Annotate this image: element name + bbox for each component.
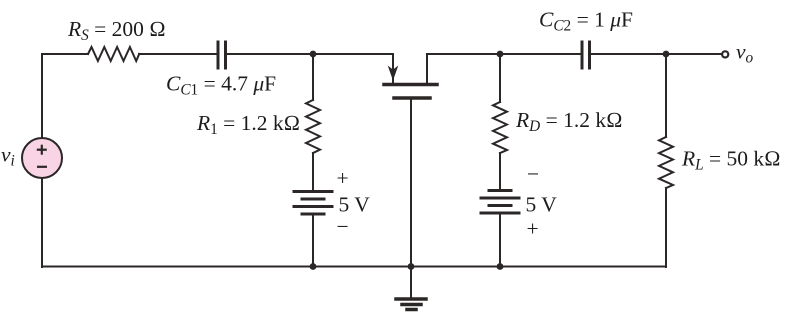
- wire R1 top: [312, 54, 314, 100]
- node C dot: [663, 51, 670, 58]
- transistor Q1 channel bar: [384, 83, 437, 87]
- svg-text:+: +: [527, 217, 539, 241]
- wire RS to CC1: [139, 53, 217, 55]
- node F dot (bottom B2): [497, 263, 504, 270]
- svg-text:−: −: [337, 215, 349, 239]
- wire CC1 to node A: [227, 53, 313, 55]
- source vi plus sign: [37, 145, 47, 167]
- resistor R1: [306, 100, 320, 153]
- wire RL top: [665, 54, 667, 137]
- source vi circle: [22, 138, 62, 178]
- capacitor CC1: [218, 42, 226, 68]
- transistor Q1 source arrow: [388, 66, 399, 81]
- svg-text:−: −: [527, 162, 539, 186]
- wire battery B2 to bottom bus: [499, 214, 501, 267]
- terminal vo open circle: [722, 51, 728, 57]
- transistor Q1 gate wire: [410, 99, 412, 267]
- ground bars: [396, 299, 426, 310]
- svg-text:+: +: [337, 166, 349, 190]
- node E dot (bottom gate/ground): [408, 263, 415, 270]
- battery B2: [481, 191, 519, 214]
- svg-text:CC2 = 1 μF: CC2 = 1 μF: [539, 8, 633, 35]
- node D dot (bottom R1): [310, 263, 317, 270]
- resistor RD: [493, 102, 507, 153]
- wire R1 to battery B1: [312, 153, 314, 191]
- wire left branch below source: [41, 178, 43, 267]
- resistor RL: [659, 137, 673, 188]
- source vi minus sign: [37, 166, 47, 168]
- transistor Q1 gate bar: [394, 96, 430, 100]
- ground stem: [410, 267, 412, 299]
- wire top-left corner to RS: [42, 54, 88, 138]
- wire RD to battery B2: [499, 153, 501, 190]
- svg-text:5 V: 5 V: [339, 193, 371, 217]
- wire CC2 to node C and vo terminal: [591, 53, 721, 55]
- wire RD top: [499, 54, 501, 102]
- node A dot: [310, 51, 317, 58]
- wire battery B1 to bottom bus: [312, 215, 314, 267]
- resistor RS: [88, 47, 139, 61]
- capacitor CC2: [582, 42, 590, 68]
- wire node A to transistor source corner: [313, 54, 393, 84]
- wire bottom bus: [42, 266, 666, 268]
- transistor Q1 drain wire: [427, 54, 500, 83]
- wire RL to bottom bus: [665, 188, 667, 267]
- svg-text:5 V: 5 V: [526, 193, 558, 217]
- battery B1: [294, 192, 332, 215]
- node B dot: [497, 51, 504, 58]
- wire node B to CC2: [500, 53, 581, 55]
